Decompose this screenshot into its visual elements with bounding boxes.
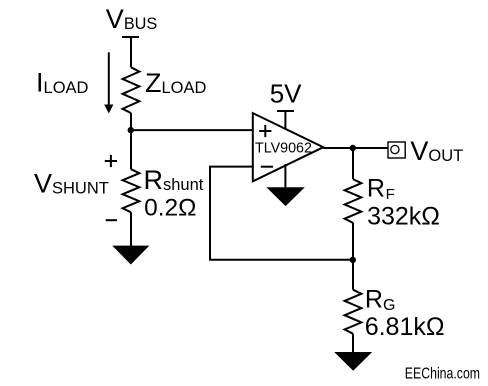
wire RF to node B xyxy=(352,223,354,260)
svg-text:TLV9062: TLV9062 xyxy=(255,141,312,157)
node A junction dot xyxy=(128,127,134,133)
wire node A to op-amp + input xyxy=(131,129,254,131)
wire node A to Rshunt xyxy=(130,130,132,169)
resistor RG xyxy=(345,290,362,334)
wire node B to RG xyxy=(352,260,354,290)
svg-text:5V: 5V xyxy=(270,78,302,108)
svg-text:332kΩ: 332kΩ xyxy=(367,203,440,231)
node B junction dot xyxy=(350,257,356,263)
resistor Rshunt xyxy=(123,169,140,212)
ground shunt xyxy=(112,246,149,265)
terminal VOUT xyxy=(388,142,405,158)
wire output node to RF xyxy=(352,148,354,179)
plus sign VSHUNT xyxy=(105,155,117,167)
wire ZLOAD to node A xyxy=(130,113,132,130)
node VOUT junction dot xyxy=(350,145,356,151)
resistor RF xyxy=(345,179,362,223)
svg-text:EEChina.com: EEChina.com xyxy=(405,365,480,383)
op-amp U1 TLV9062 xyxy=(253,113,323,181)
current arrow ILOAD xyxy=(104,52,113,113)
svg-text:0.2Ω: 0.2Ω xyxy=(144,194,196,221)
resistor ZLOAD xyxy=(123,67,140,113)
wire RG to ground xyxy=(352,334,354,353)
op-amp + input mark xyxy=(259,125,271,137)
wire op-amp V- to ground xyxy=(284,164,286,188)
op-amp - input mark xyxy=(261,166,273,168)
wire VBUS to ZLOAD xyxy=(130,37,132,67)
terminal 5V xyxy=(277,110,294,112)
wire op-amp output xyxy=(323,147,388,149)
wire feedback from op-amp - input xyxy=(210,167,353,260)
terminal VBUS xyxy=(122,36,139,38)
ground op-amp xyxy=(266,187,304,206)
wire 5V to op-amp xyxy=(284,111,286,130)
ground RG xyxy=(334,352,372,371)
svg-text:6.81kΩ: 6.81kΩ xyxy=(365,313,445,341)
minus sign VSHUNT xyxy=(106,219,117,221)
wire Rshunt to ground xyxy=(130,212,132,247)
